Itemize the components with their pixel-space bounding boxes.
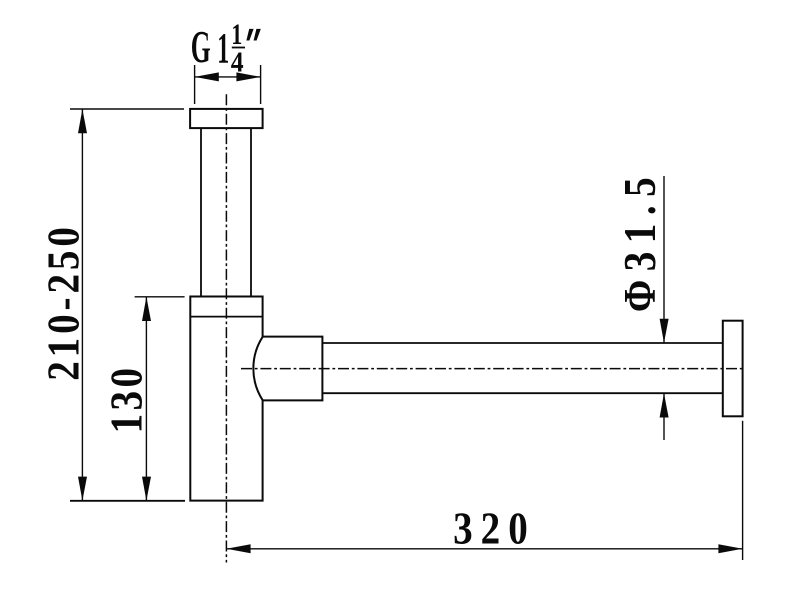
130 dimension line <box>145 297 147 501</box>
outlet connector arc <box>253 337 262 401</box>
G-dim right extension line <box>260 65 262 104</box>
inlet pipe right wall <box>250 128 252 296</box>
210-250 bottom arrowhead <box>78 477 87 501</box>
dia 31.5 lower arrowhead <box>660 393 669 417</box>
210-250 top extension line <box>70 108 184 110</box>
label G 1-1/4 inch : double prime stroke 2 <box>254 29 261 41</box>
130 top extension line <box>135 296 185 298</box>
130 top arrowhead <box>142 297 151 321</box>
G-dim left arrowhead <box>195 72 219 81</box>
320 right arrowhead <box>718 544 742 553</box>
horizontal centerline <box>241 368 743 370</box>
vertical centerline <box>225 94 227 562</box>
svg-text:1: 1 <box>217 24 229 72</box>
top flange (inlet nut) <box>190 109 263 128</box>
dia 31.5 dimension line upper <box>663 176 665 343</box>
svg-text:Φ31.5: Φ31.5 <box>615 169 666 312</box>
svg-text:320: 320 <box>453 504 536 555</box>
320 left arrowhead <box>226 544 250 553</box>
trap body outline <box>190 297 262 501</box>
horizontal pipe top wall <box>322 342 722 344</box>
wall flange <box>723 321 743 417</box>
svg-text:G: G <box>191 21 211 71</box>
320 dimension line <box>226 548 742 550</box>
dia 31.5 upper arrowhead <box>660 319 669 343</box>
G-dim dimension line <box>195 76 261 78</box>
label G 1-1/4 inch : double prime stroke 1 <box>246 29 253 41</box>
210-250 top arrowhead <box>78 109 87 133</box>
130 bottom arrowhead <box>142 477 151 501</box>
svg-text:210-250: 210-250 <box>39 223 90 381</box>
body cap seam line <box>190 316 262 318</box>
inlet pipe left wall <box>200 128 202 296</box>
horizontal pipe bottom wall <box>322 392 722 394</box>
320 right extension line <box>742 421 744 560</box>
dia 31.5 dimension line lower <box>663 393 665 440</box>
shared bottom extension line <box>70 500 185 502</box>
svg-text:130: 130 <box>102 365 153 434</box>
G-dim left extension line <box>194 65 196 104</box>
G-dim right arrowhead <box>236 72 260 81</box>
210-250 dimension line <box>81 109 83 501</box>
label G 1-1/4 inch : fraction bar <box>232 47 245 49</box>
outlet connector box <box>263 337 323 401</box>
